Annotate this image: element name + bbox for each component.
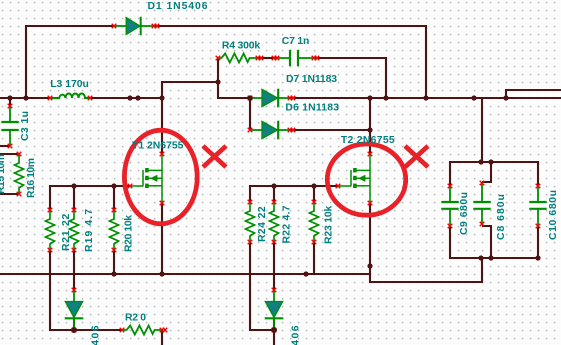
svg-text:406: 406	[91, 324, 102, 345]
svg-text:C9 680u: C9 680u	[459, 192, 470, 236]
svg-text:R21 22: R21 22	[61, 213, 72, 251]
svg-text:R22 4.7: R22 4.7	[282, 205, 293, 243]
svg-text:R15 10m: R15 10m	[0, 154, 7, 194]
svg-text:R2 0: R2 0	[125, 313, 146, 324]
svg-text:T1 2N6755: T1 2N6755	[132, 141, 184, 152]
svg-text:406: 406	[291, 324, 302, 345]
svg-text:R19 4.7: R19 4.7	[84, 208, 95, 252]
svg-text:D6 1N1183: D6 1N1183	[285, 103, 339, 114]
svg-text:R4 300k: R4 300k	[222, 41, 260, 52]
svg-text:L3 170u: L3 170u	[50, 79, 89, 90]
svg-text:C10 680u: C10 680u	[548, 189, 559, 240]
svg-text:R24 22: R24 22	[257, 206, 268, 242]
svg-text:R20 10k: R20 10k	[124, 215, 135, 252]
svg-text:D1 1N5406: D1 1N5406	[148, 1, 209, 12]
svg-text:R16 10m: R16 10m	[26, 158, 37, 198]
svg-text:T2 2N6755: T2 2N6755	[341, 135, 395, 146]
svg-text:C8 680u: C8 680u	[496, 193, 507, 240]
svg-text:D7 1N1183: D7 1N1183	[286, 74, 337, 85]
svg-text:C7 1n: C7 1n	[282, 36, 309, 47]
svg-text:C3 1u: C3 1u	[20, 111, 31, 141]
svg-text:R23 10k: R23 10k	[324, 205, 335, 244]
